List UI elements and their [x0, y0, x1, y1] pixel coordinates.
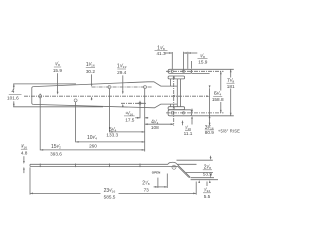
bottom outer ext line [192, 115, 234, 117]
svg-text:260: 260 [89, 143, 97, 148]
strap outline bottom edge [33, 104, 177, 108]
svg-text:80.9: 80.9 [205, 130, 215, 135]
strap width ext line bottom [13, 106, 103, 108]
plate thickness lines bottom right [191, 177, 214, 179]
bracket bottom flange [168, 107, 185, 110]
bracket inner diagonal [172, 165, 178, 167]
strap tip rounded end [32, 87, 33, 105]
top outer ext line [192, 68, 234, 70]
svg-text:15¹⁄₂: 15¹⁄₂ [51, 144, 61, 150]
svg-text:108: 108 [151, 125, 159, 130]
rise ref line lower [186, 172, 213, 174]
svg-text:+5/8″ RISE: +5/8″ RISE [218, 129, 240, 134]
strip hole tick H3 [108, 164, 110, 168]
hole H5 cross [139, 102, 141, 104]
hole H2 [74, 99, 77, 102]
bracket foot [189, 176, 190, 178]
leader L3 [122, 75, 124, 92]
svg-text:30.2: 30.2 [86, 69, 96, 74]
svg-text:158.8: 158.8 [212, 97, 224, 102]
svg-text:29.4: 29.4 [117, 70, 127, 75]
ext line from H2 down [75, 102, 77, 142]
strip hole tick H1 [39, 164, 41, 168]
bracket top plate [168, 69, 192, 73]
dim 4/101.6 line [13, 84, 15, 89]
dim 73 line [154, 186, 168, 188]
dim 260 line [76, 141, 145, 143]
svg-text:17.5: 17.5 [125, 117, 135, 122]
dim 15.9 arrow + leader [188, 52, 191, 54]
hole H1 [39, 95, 42, 98]
svg-text:4.8: 4.8 [21, 150, 28, 155]
bracket hole B2 [182, 112, 184, 114]
strap width ext line top [13, 83, 76, 85]
svg-text:15.9: 15.9 [198, 60, 208, 65]
ext verticals for 73 dim [157, 178, 159, 188]
bracket hole B1 [171, 112, 173, 114]
pin hole bottom view [172, 165, 176, 169]
dim 393.6 line [40, 149, 145, 151]
top plate hole row dashdot [166, 70, 224, 72]
rise dim arrows [210, 156, 212, 158]
bracket boss arc [168, 162, 177, 164]
strap outline top edge [33, 82, 177, 87]
svg-text:4: 4 [12, 89, 15, 95]
hole H4 [144, 86, 147, 89]
ext 585.5 right [195, 182, 197, 195]
flange hole F1 [173, 77, 175, 79]
svg-text:11.1: 11.1 [184, 131, 193, 136]
upper hole row line [92, 86, 152, 88]
ext 585.5 left [29, 167, 31, 194]
bracket barrel vertical [209, 88, 211, 126]
strip hole tick H2 [75, 164, 77, 168]
bottom view strip top [30, 163, 168, 165]
thickness dim arrows left [23, 156, 25, 161]
svg-text:101.6: 101.6 [7, 95, 19, 100]
bottom plate hole row dashdot [166, 112, 224, 114]
leader L1 [57, 73, 59, 92]
svg-text:585.5: 585.5 [104, 195, 116, 200]
ext line from H1 down [39, 98, 41, 150]
svg-text:181: 181 [227, 84, 235, 89]
svg-text:41.3: 41.3 [156, 51, 166, 56]
dim 133.3 line [109, 131, 144, 133]
strip hole tick H5 [139, 164, 141, 168]
svg-text:53.9: 53.9 [203, 172, 213, 177]
dim 7 1/8 181 vertical line [230, 69, 232, 77]
svg-text:23¹⁄₁₆: 23¹⁄₁₆ [104, 188, 116, 194]
dim 585.5 line [30, 192, 101, 194]
bracket inner verticals [176, 79, 178, 107]
svg-text:2⁷⁄₈: 2⁷⁄₈ [142, 181, 150, 187]
svg-text:393.6: 393.6 [50, 151, 62, 156]
dim 108 line [145, 123, 174, 125]
svg-text:15.9: 15.9 [53, 68, 63, 73]
dim 41.3 & 15.9 ext verticals up [171, 52, 173, 69]
ext line from H3 down [108, 89, 110, 133]
bracket outer diagonal [177, 164, 191, 178]
dim line 41.3 row [165, 52, 173, 54]
strip left edge [29, 164, 31, 166]
centerline [24, 95, 208, 97]
ext line from H5 down [139, 105, 141, 118]
thickness arrows 5.5 [198, 180, 200, 183]
lower hole row line [121, 102, 146, 104]
svg-text:133.3: 133.3 [106, 132, 118, 137]
dim 6 1/4 158.8 vertical line [220, 71, 222, 90]
bracket bottom plate [168, 110, 192, 116]
bracket hole T1 [171, 70, 173, 72]
dim 17.5 line [135, 117, 140, 119]
bracket hole T2 [182, 70, 184, 72]
bottom view strip bottom [30, 165, 172, 167]
hole H3 [108, 86, 111, 89]
flange hole F2 [173, 107, 175, 109]
ext line from H4 down [144, 89, 146, 152]
leader L2 [91, 74, 93, 84]
dim 11.1 arrow [191, 109, 193, 111]
bracket top flange [168, 76, 185, 79]
svg-text:OPEN: OPEN [152, 171, 161, 175]
strip top ext right [178, 163, 197, 165]
rise ref line upper [177, 159, 213, 161]
svg-text:73: 73 [144, 188, 150, 193]
svg-text:10¹⁄₄: 10¹⁄₄ [87, 135, 97, 141]
svg-text:5.5: 5.5 [204, 194, 211, 199]
